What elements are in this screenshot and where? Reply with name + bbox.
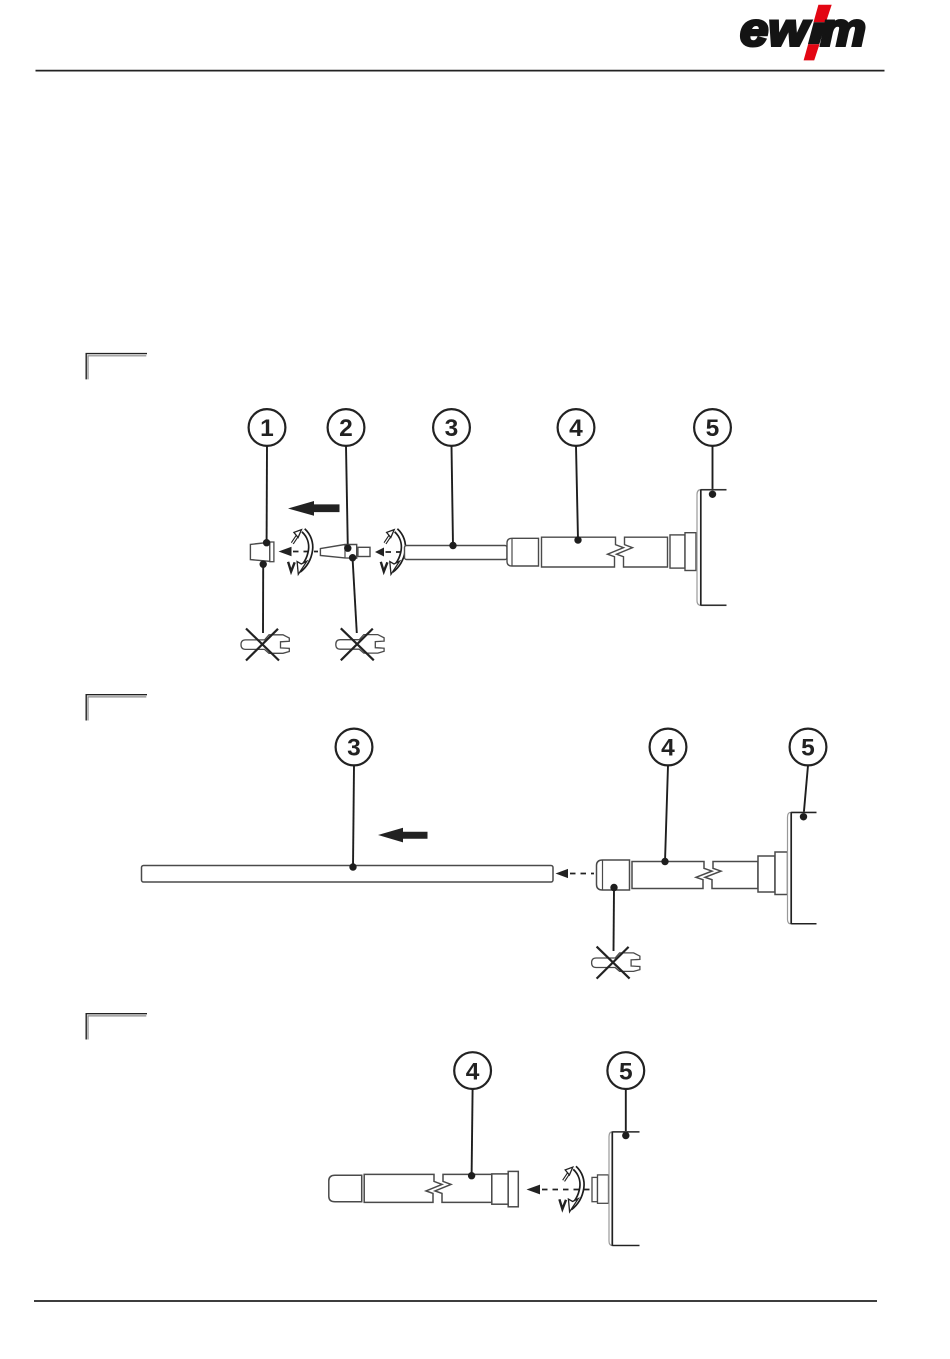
part 2 top dot <box>344 545 351 552</box>
part 4 left cap <box>507 538 539 566</box>
part 4 tube left segment with break <box>542 537 624 567</box>
dashed arrow 3 <box>556 869 595 878</box>
callout circle 4b <box>650 729 687 766</box>
rotation symbol 1 <box>288 530 311 575</box>
part 1 contact tip body <box>250 542 269 561</box>
leader to wrench 2 <box>353 559 357 633</box>
part 4 tube right segment with break <box>617 537 668 567</box>
callout circle 5 <box>694 409 731 446</box>
leader line 4b <box>665 766 668 862</box>
callout circle 5b <box>790 729 827 766</box>
footer rule <box>34 1300 877 1302</box>
svg-text:4: 4 <box>661 735 675 762</box>
part 1 rear plate <box>270 542 274 562</box>
callout circle 5c <box>607 1052 644 1089</box>
part 4c flange <box>508 1171 518 1206</box>
part 4 collar block <box>670 535 685 568</box>
leader line 4 <box>576 446 578 540</box>
leader line 1 <box>266 446 268 542</box>
leader line 2 <box>346 446 348 547</box>
part 2 right collar <box>358 547 370 556</box>
header rule <box>36 70 885 72</box>
part 2 tip holder cone <box>320 545 356 559</box>
plate stub body <box>598 1175 609 1203</box>
logo red slash bottom <box>804 44 820 60</box>
part 2 bottom dot <box>349 554 356 561</box>
corner mark 2 <box>86 695 147 721</box>
corner mark 3 <box>86 1014 147 1040</box>
rotation symbol 3 <box>559 1167 582 1212</box>
ewm logo <box>740 4 866 61</box>
callout circle 4 <box>558 409 595 446</box>
dashed arrow 2 <box>375 548 404 557</box>
svg-text:2: 2 <box>339 415 353 442</box>
part 4b cap rim line <box>602 860 604 890</box>
svg-text:4: 4 <box>569 415 583 442</box>
part 5 mounting plate diagram 1 <box>697 490 727 606</box>
dashed arrow 1 <box>279 547 319 556</box>
part 5 mounting plate diagram 2 <box>788 812 817 924</box>
dashed arrow 4 <box>527 1185 591 1195</box>
leader line 5 <box>712 446 714 494</box>
part 4c tube right segment <box>435 1174 492 1202</box>
part 4b dot <box>661 858 668 865</box>
leader to wrench 1 <box>262 566 264 633</box>
part 4 cap rim line <box>511 538 513 566</box>
part 4b flange <box>775 852 788 895</box>
svg-text:m: m <box>821 4 867 56</box>
callout circle 2 <box>328 409 365 446</box>
no-tools wrench 3 <box>592 947 640 979</box>
part 4b left cap <box>597 860 630 890</box>
svg-text:4: 4 <box>466 1058 480 1085</box>
part 4c collar block <box>492 1174 508 1204</box>
part 3 dot <box>449 542 456 549</box>
callout circle 3 <box>433 409 470 446</box>
part 4b tube left segment <box>632 862 712 889</box>
part 4 flange <box>685 533 696 571</box>
part 3 dot b <box>349 863 356 870</box>
svg-text:1: 1 <box>260 415 274 442</box>
corner mark 1 <box>86 354 147 380</box>
part 3 long liner tube <box>142 866 554 883</box>
part 1 bottom dot <box>260 561 267 568</box>
svg-text:3: 3 <box>445 415 459 442</box>
part 2 divider line <box>344 545 346 558</box>
part 4c tube left segment <box>364 1174 442 1202</box>
logo slash middle black <box>808 22 826 44</box>
leader line 4c <box>472 1089 473 1176</box>
logo red slash top <box>814 5 832 23</box>
no-tools wrench 1 <box>241 629 289 661</box>
part 5 mounting plate diagram 3 <box>609 1132 640 1246</box>
leader to wrench 3 <box>613 889 616 951</box>
part 1 top dot <box>263 539 270 546</box>
svg-text:5: 5 <box>801 735 815 762</box>
leader line 3 <box>452 446 454 546</box>
svg-text:ew: ew <box>740 4 812 56</box>
part 4c left cap <box>329 1175 362 1202</box>
part 4b cap dot <box>610 884 617 891</box>
no-tools wrench 2 <box>336 628 384 660</box>
callout circle 3b <box>336 729 373 766</box>
part 3 wire guide tube <box>405 546 508 560</box>
leader line 3b <box>353 766 354 868</box>
leader line 5c <box>625 1089 627 1136</box>
part 4c joint line <box>361 1175 363 1202</box>
svg-text:3: 3 <box>347 735 361 762</box>
leader line 5b <box>804 766 809 817</box>
big removal arrow diagram 1 <box>288 501 340 516</box>
part 4b tube right segment <box>705 862 758 889</box>
callout circle 1 <box>249 409 286 446</box>
big removal arrow diagram 2 <box>378 828 428 843</box>
part 4c dot <box>468 1172 475 1179</box>
callout circle 4c <box>454 1052 491 1089</box>
plate stub front <box>592 1177 598 1201</box>
svg-text:5: 5 <box>706 415 720 442</box>
part 4 dot <box>574 536 581 543</box>
part 4b collar block <box>758 856 775 892</box>
rotation symbol 2 <box>381 530 404 575</box>
svg-text:5: 5 <box>619 1058 633 1085</box>
